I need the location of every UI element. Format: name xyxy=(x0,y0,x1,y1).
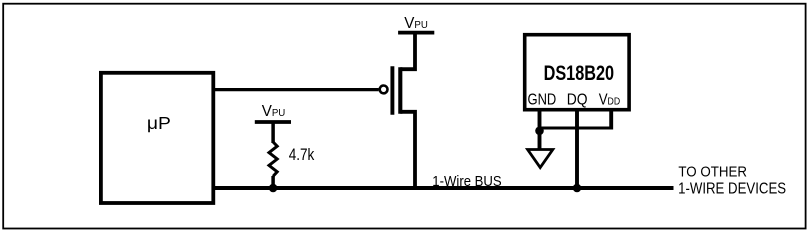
svg-text:4.7k: 4.7k xyxy=(289,146,315,164)
svg-text:1-WIRE DEVICES: 1-WIRE DEVICES xyxy=(678,181,786,198)
svg-text:VPU: VPU xyxy=(404,15,428,32)
svg-text:GND: GND xyxy=(528,92,557,109)
svg-text:DQ: DQ xyxy=(567,92,588,109)
svg-text:TO OTHER: TO OTHER xyxy=(678,164,747,181)
svg-text:VDD: VDD xyxy=(599,92,621,109)
svg-text:μP: μP xyxy=(147,113,171,133)
svg-text:DS18B20: DS18B20 xyxy=(544,62,615,85)
svg-text:VPU: VPU xyxy=(262,103,286,120)
svg-text:1-Wire BUS: 1-Wire BUS xyxy=(432,174,502,190)
